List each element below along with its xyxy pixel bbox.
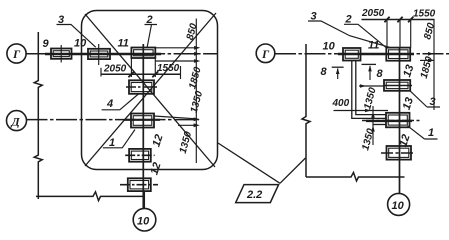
label 4 with leader (left) [102,94,139,111]
svg-text:850: 850 [185,22,200,41]
svg-text:1550: 1550 [157,63,180,74]
svg-text:12: 12 [150,133,165,148]
axis line Д thick segment through rectangle [124,119,160,121]
top dimension line 2050/1550 (right) [361,8,436,22]
label 3 with leader (right lower) [410,91,440,108]
dense welded block [373,124,386,126]
svg-text:2050: 2050 [103,64,127,75]
label 2 with leader (left) [145,14,158,48]
element rect R4 (12) [381,146,416,160]
element rect R3 (on Д level, label 1) [362,113,422,128]
label 2 with leader (right) [344,14,387,49]
flag 2.2 parallelogram [236,185,279,203]
circle mark 10 (right) [388,193,410,215]
axis line Г thick segment through right rectangles [338,53,414,55]
dimension line 2050 / 1550 [101,63,181,79]
svg-text:2.2: 2.2 [246,189,262,201]
element rect R5 (middle, label 3) [359,80,412,91]
label 1 with leader (right) [408,126,438,139]
svg-text:10: 10 [392,200,405,212]
svg-text:11: 11 [118,38,129,50]
svg-text:4: 4 [106,98,113,110]
svg-text:10: 10 [323,41,336,53]
svg-text:9: 9 [43,38,50,50]
svg-text:1: 1 [109,137,115,149]
svg-text:400: 400 [332,98,350,109]
boundary break line (vertical) [302,44,310,177]
axis line Д (dash-dot) [27,119,200,121]
right vertical dimension line 850/1850 [420,20,434,111]
svg-text:1350: 1350 [178,130,194,155]
label 3 with leader (right top) [308,11,392,49]
svg-text:Г: Г [12,47,21,61]
crossed-out rounded rectangle [82,11,218,170]
svg-text:1850: 1850 [187,66,203,91]
svg-text:8: 8 [321,66,328,78]
cross diagonal 1 [85,14,215,167]
leader from flag 2.2 to right view boundary [280,158,306,183]
element rect F (12 upper) [125,149,154,162]
element rect R1 (10) [343,48,361,61]
column centre line (left view) [142,44,144,208]
leader from rounded rect to flag 2.2 [218,143,280,183]
line from bottom rect down to circle 10 [143,191,145,208]
extension line x373 with up arrows [371,106,375,145]
svg-text:1350: 1350 [362,86,378,111]
svg-text:1850: 1850 [419,55,435,80]
svg-text:10: 10 [74,38,87,50]
svg-text:10: 10 [137,216,150,228]
axis circle Д [7,111,27,131]
svg-text:2: 2 [345,14,352,26]
axis line Г thick segment through rectangles [45,53,161,55]
wall line (vertical with break) [34,32,42,199]
vertical dimension line (1350 pair) [178,117,200,127]
axis line Г (right, dash-dot) [275,53,449,55]
svg-text:1350: 1350 [189,90,205,115]
svg-text:3: 3 [430,96,436,108]
circle mark 10 (left) [133,208,156,231]
axis line Г (left, dash-dot) [26,53,217,55]
label 3 with leader (left) [57,14,96,47]
boundary bottom line with break [306,173,405,182]
cross diagonal 2 [85,13,216,166]
dimension 400 with arrow [332,98,389,112]
element rect C (2) [131,48,155,59]
element rect E (on axis Д) [131,114,196,128]
svg-text:2050: 2050 [361,8,385,19]
svg-text:12: 12 [148,161,163,176]
label 1 with leader (left) [103,130,135,150]
bottom datum line with break [36,192,144,201]
vertical dimension line (850/1850) [155,19,200,164]
element rect D (4) [126,80,157,94]
axis circle Г (left) [7,44,26,63]
callout 8 (right arrow) [362,64,384,80]
svg-text:1: 1 [428,127,434,139]
column centre line (right view) [399,48,401,194]
double stand-pipe below R1 with elbow [352,61,386,119]
svg-text:1550: 1550 [413,9,436,20]
svg-text:13: 13 [401,63,416,78]
axis circle Г (right) [256,44,275,63]
element rect B (10) [88,44,110,65]
extension lines below rect C [130,58,132,77]
element rect R2 (11) [386,48,410,61]
svg-text:850: 850 [422,21,437,40]
svg-text:1350: 1350 [360,127,376,152]
svg-text:Д: Д [11,115,21,129]
callout 8 (left arrow) [321,66,344,79]
svg-text:Г: Г [261,47,270,61]
element rect G (12 lower) [120,178,158,191]
element rect row Г: rect A [51,45,72,63]
svg-text:8: 8 [377,68,384,80]
svg-text:13: 13 [401,96,416,111]
extension lines from top dim to rect row [386,20,388,48]
